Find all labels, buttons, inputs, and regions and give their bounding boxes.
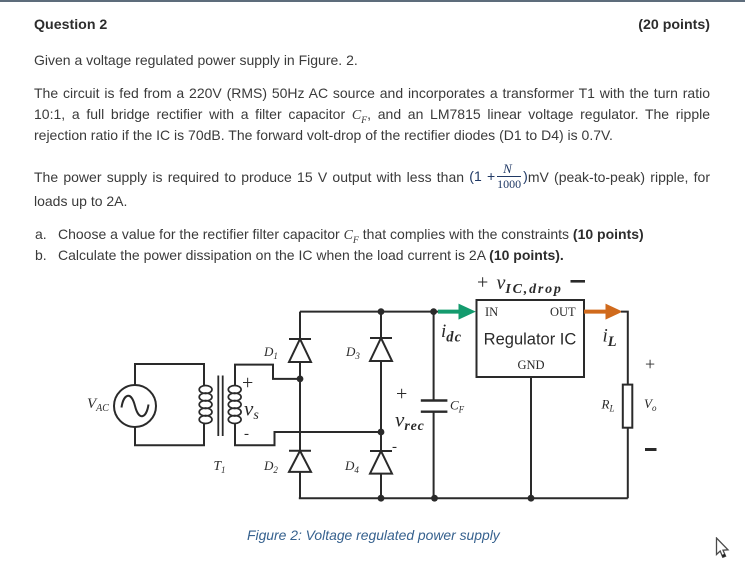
paragraph 1 — [34, 53, 710, 67]
svg-text:D1: D1 — [263, 344, 278, 361]
paragraph 3 with fraction — [34, 162, 710, 192]
paragraph 2 (justified, 3 lines) — [34, 86, 710, 100]
diode D4 — [370, 432, 392, 498]
current arrow iL — [584, 304, 623, 320]
svg-text:OUT: OUT — [550, 305, 576, 319]
node top rail D3 — [378, 308, 385, 315]
svg-text:D3: D3 — [345, 344, 360, 361]
svg-text:Regulator IC: Regulator IC — [484, 331, 577, 349]
diode D2 — [289, 379, 311, 498]
diode D3 — [370, 312, 392, 432]
svg-text:idc: idc — [441, 321, 462, 346]
svg-text:vrec: vrec — [395, 408, 425, 435]
wire bottom rail — [299, 497, 628, 499]
wire primary loop — [135, 364, 204, 445]
wire secondary minus terminal — [235, 423, 381, 445]
wire RL bottom — [627, 428, 629, 499]
svg-text:+: + — [396, 383, 407, 405]
regulator IC U1 — [477, 300, 585, 377]
svg-text:+: + — [645, 354, 655, 374]
svg-text:-: - — [244, 426, 249, 442]
svg-text:vIC,drop: vIC,drop — [497, 272, 563, 297]
transformer T1 secondary coil — [228, 386, 241, 424]
node bottom rail GND — [528, 495, 535, 502]
figure caption — [247, 527, 500, 543]
svg-text:T1: T1 — [214, 458, 226, 475]
resistor RL — [623, 385, 633, 428]
label vIC,drop — [477, 272, 585, 298]
svg-text:Vo: Vo — [644, 396, 657, 413]
mouse cursor — [715, 537, 733, 561]
node top rail CF — [430, 308, 437, 315]
node bottom rail CF — [431, 495, 438, 502]
top window edge line — [0, 0, 745, 2]
svg-text:iL: iL — [603, 326, 617, 351]
svg-text:IN: IN — [485, 305, 498, 319]
transformer T1 primary coil — [199, 386, 212, 424]
svg-text:+: + — [242, 372, 253, 394]
list — [34, 226, 710, 228]
svg-text:D2: D2 — [263, 458, 278, 475]
wire secondary plus terminal — [235, 365, 300, 386]
node secondary minus junction — [378, 429, 385, 436]
wire GND branch — [530, 377, 532, 498]
svg-text:RL: RL — [601, 397, 615, 414]
svg-text:VAC: VAC — [87, 396, 109, 414]
label Vo minus — [645, 448, 657, 451]
current arrow idc — [438, 304, 476, 320]
node secondary plus junction — [297, 376, 304, 383]
svg-text:D4: D4 — [344, 458, 359, 475]
svg-text:CF: CF — [450, 398, 465, 415]
svg-text:vs: vs — [244, 397, 259, 424]
title row — [34, 18, 710, 32]
transformer T1 core — [218, 376, 222, 437]
svg-text:-: - — [392, 439, 397, 455]
wire top rail — [300, 311, 438, 313]
svg-text:+: + — [477, 272, 488, 294]
wire output branch — [621, 312, 628, 385]
svg-text:GND: GND — [517, 358, 544, 372]
wire CF branch — [433, 312, 435, 499]
node bottom rail D4 — [378, 495, 385, 502]
diode D1 — [289, 312, 311, 379]
capacitor CF — [421, 401, 448, 412]
ac source VAC — [114, 385, 156, 427]
